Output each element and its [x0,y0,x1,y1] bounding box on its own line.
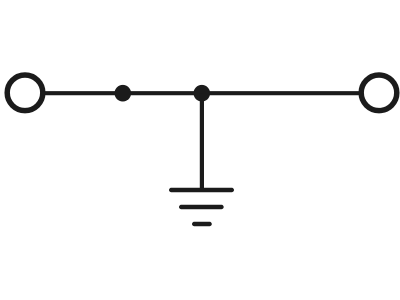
wire (to ground) [200,93,204,190]
junction dot 2 (node to ground) [194,85,211,102]
junction dot 1 [115,85,132,102]
ground bar 3 [194,222,209,226]
left terminal contact [7,75,43,111]
ground bar 2 [181,205,221,209]
right terminal contact [361,75,397,111]
ground bar 1 [171,188,232,192]
wire (main conductor) [43,91,361,95]
